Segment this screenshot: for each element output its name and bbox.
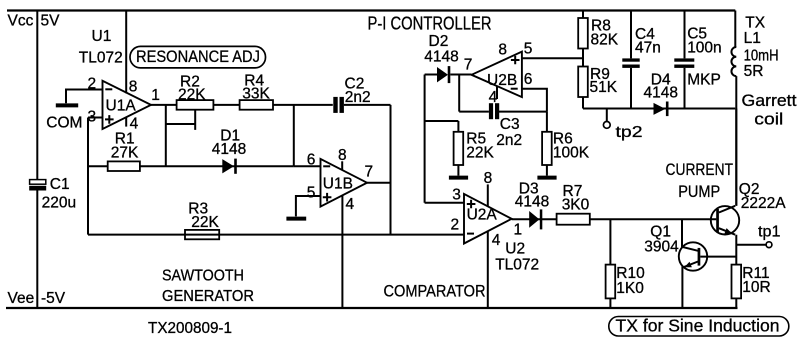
wire R1/D1 row	[88, 165, 294, 167]
transistor Q1	[644, 219, 736, 308]
resistor R3	[185, 201, 220, 240]
svg-text:22K: 22K	[178, 87, 206, 104]
svg-text:2: 2	[451, 217, 460, 234]
U1B pin 4 wire to Vee	[342, 196, 354, 309]
svg-text:8: 8	[484, 170, 493, 187]
svg-text:220u: 220u	[42, 195, 76, 212]
wire C-section bottom row	[583, 108, 735, 110]
resistor R7	[557, 183, 590, 225]
U1B pin 8 stub	[338, 147, 347, 170]
svg-text:2: 2	[88, 76, 97, 93]
svg-text:U2A: U2A	[467, 206, 498, 223]
svg-text:4148: 4148	[212, 141, 246, 158]
svg-text:GENERATOR: GENERATOR	[162, 288, 254, 305]
U2B pin 4 stub	[489, 86, 498, 106]
wire output node down	[165, 105, 167, 166]
op-amp U1A	[103, 81, 152, 129]
svg-text:22K: 22K	[466, 145, 494, 162]
op-amp U2B (points left)	[472, 52, 522, 98]
resistor R2 (pot)	[177, 73, 214, 109]
U1A pin 8 wire to Vcc	[126, 11, 137, 96]
svg-text:100K: 100K	[553, 145, 590, 162]
resistor R9	[578, 66, 618, 108]
svg-text:51K: 51K	[590, 79, 618, 96]
svg-text:2222A: 2222A	[741, 195, 786, 212]
svg-text:tp2: tp2	[616, 124, 643, 141]
svg-text:1: 1	[151, 87, 160, 104]
svg-text:TX for Sine Induction: TX for Sine Induction	[616, 316, 780, 336]
svg-text:MKP: MKP	[687, 71, 721, 88]
Vcc top rail	[7, 11, 735, 30]
U2B pin 6 wire	[522, 71, 547, 112]
Vee bottom rail	[6, 290, 738, 308]
inductor L1 coil	[731, 11, 778, 206]
svg-text:C1: C1	[50, 176, 70, 193]
resistor R4	[240, 72, 273, 109]
svg-text:4148: 4148	[424, 49, 458, 66]
svg-text:47n: 47n	[635, 39, 661, 56]
ground R6	[537, 176, 556, 180]
U1A pin 4 stub	[126, 116, 138, 133]
svg-text:CURRENT: CURRENT	[666, 160, 734, 179]
op-amp U2A	[464, 194, 512, 244]
svg-text:1: 1	[514, 221, 523, 238]
wire P-I output vertical	[424, 75, 426, 203]
svg-text:D2: D2	[429, 33, 449, 50]
U1A pin 2 wire	[66, 76, 103, 104]
svg-text:C3: C3	[500, 116, 520, 133]
svg-text:2n2: 2n2	[496, 132, 522, 149]
label Garrett coil	[742, 91, 797, 129]
wire R3 row	[88, 234, 464, 236]
R2 wiper	[166, 110, 195, 130]
label U2 TL072	[495, 241, 539, 274]
test point tp1	[736, 223, 780, 247]
svg-text:8: 8	[129, 79, 138, 96]
label U1 TL072	[79, 28, 123, 66]
wire pin6 node vertical	[293, 105, 295, 166]
svg-text:8: 8	[338, 147, 347, 164]
svg-text:4148: 4148	[515, 193, 549, 210]
test point tp2	[603, 109, 642, 141]
svg-text:U1A: U1A	[106, 98, 137, 115]
svg-text:3904: 3904	[644, 238, 679, 255]
ground R5	[449, 176, 468, 180]
svg-text:TX: TX	[745, 14, 765, 31]
diode D3	[515, 181, 549, 230]
svg-text:L1: L1	[744, 30, 761, 47]
svg-text:TX200809-1: TX200809-1	[148, 320, 232, 337]
wire sawtooth node vertical	[390, 105, 392, 235]
svg-text:33K: 33K	[242, 86, 270, 103]
capacitor C1	[29, 176, 76, 212]
U2B pin 5 wire	[522, 40, 583, 58]
resistor R10	[606, 219, 646, 308]
U1A output pin 1	[151, 87, 333, 105]
svg-text:2n2: 2n2	[345, 89, 371, 106]
svg-text:TL072: TL072	[495, 257, 539, 274]
svg-text:tp1: tp1	[758, 223, 781, 240]
U2A pin 3 wire from P-I	[425, 187, 464, 204]
svg-text:7: 7	[464, 56, 473, 73]
svg-text:4: 4	[346, 196, 355, 213]
U1B pin 5 wire	[296, 185, 321, 217]
U1B output pin 7	[365, 163, 391, 182]
wire C3 row	[459, 111, 547, 113]
svg-text:1K0: 1K0	[616, 280, 644, 297]
svg-text:6: 6	[307, 151, 316, 168]
U1A pin 3 wire	[88, 109, 103, 126]
capacitor C5	[674, 11, 721, 109]
svg-text:PUMP: PUMP	[678, 182, 720, 201]
svg-text:4: 4	[492, 232, 501, 249]
U2A pin 8 stub	[484, 170, 493, 206]
svg-text:5: 5	[307, 185, 316, 202]
TX for Sine Induction box	[609, 316, 789, 336]
svg-text:100n: 100n	[687, 39, 721, 56]
svg-text:U2: U2	[505, 241, 525, 258]
U2A output pin 1	[512, 219, 717, 238]
svg-text:coil: coil	[754, 110, 783, 129]
wire Vcc/Vee left vertical through C1	[36, 11, 38, 309]
svg-text:P-I CONTROLLER: P-I CONTROLLER	[368, 13, 492, 33]
label SAWTOOTH GENERATOR	[162, 268, 254, 305]
wire pin3 down to R3 row	[87, 118, 89, 235]
U2A pin 4 wire to Vee	[488, 231, 501, 308]
diode D4	[644, 72, 678, 117]
svg-text:U2B: U2B	[487, 72, 517, 89]
ground U1B pin5	[286, 217, 306, 221]
svg-text:22K: 22K	[191, 214, 219, 231]
svg-text:10mH: 10mH	[744, 47, 779, 64]
svg-text:3: 3	[452, 187, 461, 204]
svg-text:27K: 27K	[111, 144, 139, 161]
svg-text:SAWTOOTH: SAWTOOTH	[162, 268, 244, 285]
transistor Q2	[711, 109, 786, 265]
svg-text:3K0: 3K0	[562, 197, 590, 214]
svg-text:5: 5	[524, 40, 533, 57]
resistor R8	[578, 11, 619, 67]
svg-text:6: 6	[524, 71, 533, 88]
U1B pin 6 wire	[294, 151, 321, 168]
wire C2 right to sawtooth node	[344, 104, 391, 106]
svg-text:Garrett: Garrett	[742, 91, 797, 110]
resistor R1	[108, 131, 140, 171]
label CURRENT PUMP	[666, 160, 734, 201]
svg-text:U1: U1	[92, 28, 112, 45]
svg-text:7: 7	[365, 163, 374, 180]
wire C3 feedback left leg	[458, 75, 460, 112]
capacitor C2	[333, 75, 370, 113]
capacitor C4	[622, 11, 661, 109]
svg-text:-5V: -5V	[41, 290, 66, 307]
op-amp U1B	[321, 159, 368, 207]
resistor R11	[732, 265, 771, 308]
svg-text:U1B: U1B	[323, 175, 353, 192]
svg-text:COMPARATOR: COMPARATOR	[384, 281, 486, 300]
svg-text:Vee: Vee	[8, 290, 35, 307]
svg-text:10R: 10R	[742, 279, 770, 296]
svg-text:RESONANCE ADJ: RESONANCE ADJ	[136, 47, 260, 66]
svg-text:TL072: TL072	[79, 49, 123, 66]
diode D1	[212, 128, 246, 174]
diode D2	[424, 33, 471, 83]
resistor R5	[425, 121, 495, 176]
svg-text:4148: 4148	[644, 85, 678, 102]
RESONANCE ADJ box	[130, 46, 266, 68]
svg-text:Vcc: Vcc	[8, 12, 34, 29]
svg-text:COM: COM	[46, 115, 82, 132]
ground COM	[46, 105, 82, 131]
capacitor C3	[489, 103, 522, 149]
resistor R6	[542, 112, 590, 176]
svg-text:5R: 5R	[744, 63, 764, 80]
svg-text:82K: 82K	[591, 31, 619, 48]
svg-text:5V: 5V	[41, 12, 61, 29]
svg-text:8: 8	[498, 41, 507, 58]
